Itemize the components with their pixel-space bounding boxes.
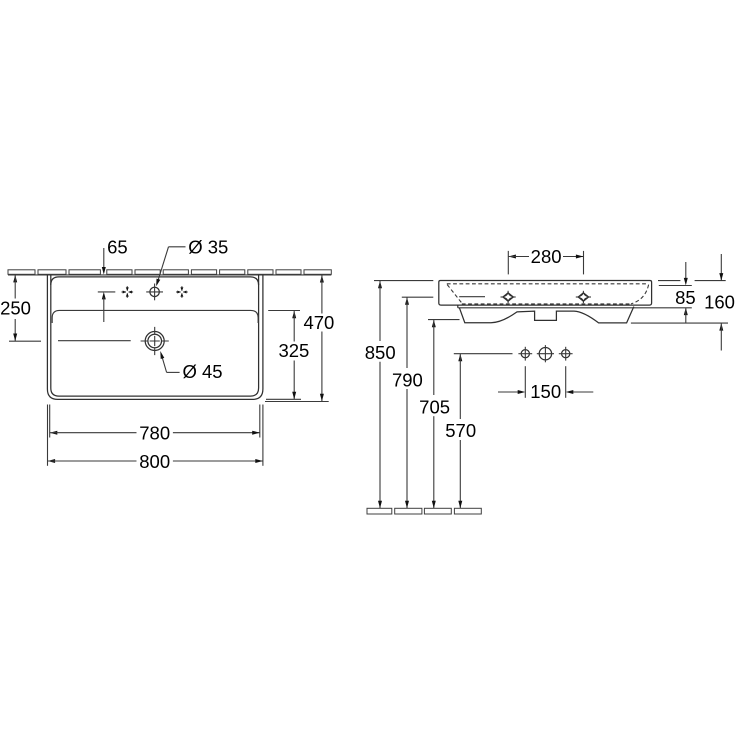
basin outer outline (plan): [47, 275, 263, 400]
extension line 325 bottom: [266, 398, 301, 400]
label leader Ø 45: [160, 351, 222, 382]
dimension 570: [445, 354, 512, 509]
fixing hole left (elevation): [501, 291, 516, 303]
dimension 160: [704, 254, 735, 351]
dimension 85: [675, 262, 696, 323]
svg-text:Ø 35: Ø 35: [188, 237, 228, 258]
wall tile row (plan view top): [8, 270, 331, 275]
extension line 800 left: [47, 405, 49, 466]
floor tile row: [367, 508, 481, 514]
svg-text:Ø 45: Ø 45: [182, 361, 222, 382]
extension line 470 bottom: [265, 401, 329, 403]
dimension 790: [392, 297, 433, 508]
svg-text:280: 280: [531, 246, 562, 267]
dimension 65: [98, 237, 128, 322]
faucet hole Ø35 (plan): [146, 284, 163, 301]
svg-text:250: 250: [0, 297, 31, 318]
drain centreline: [58, 340, 131, 342]
apron top line / 85 bottom reference: [458, 307, 692, 309]
extension line 780 left: [49, 405, 51, 438]
basin inner rim line (plan): [51, 275, 259, 396]
drain hole Ø45 (plan): [141, 327, 169, 355]
dimension 780: [50, 423, 260, 444]
dimension 150: [498, 366, 593, 402]
apron and feet outline: [459, 307, 633, 323]
extension line 800 right: [262, 405, 264, 466]
svg-text:705: 705: [419, 397, 450, 418]
overflow line (elevation): [459, 296, 485, 298]
svg-text:850: 850: [365, 342, 396, 363]
bowl inner edge (plan): [52, 310, 258, 323]
right alternative tap hole mark: [176, 286, 188, 298]
extension line 780 right: [259, 405, 261, 438]
svg-text:150: 150: [530, 381, 561, 402]
dimension 250: [0, 275, 41, 341]
dimension 280: [508, 246, 583, 274]
basin body (elevation): [439, 281, 652, 306]
wall face line: [8, 274, 331, 276]
svg-text:160: 160: [704, 291, 735, 312]
dimension 850: [365, 281, 396, 509]
left alternative tap hole mark: [122, 286, 134, 298]
hidden bowl contour (dashed): [447, 284, 649, 304]
top edge reference line left: [374, 280, 433, 282]
svg-text:85: 85: [675, 287, 696, 308]
160 bottom reference line: [631, 322, 728, 324]
dimension 470: [303, 275, 334, 401]
svg-text:570: 570: [445, 420, 476, 441]
svg-text:325: 325: [278, 340, 309, 361]
top edge reference line right segments: [658, 280, 680, 282]
rim step (elevation): [457, 305, 459, 308]
svg-text:470: 470: [303, 312, 334, 333]
label leader Ø 35: [156, 237, 228, 287]
dimension 705: [419, 320, 459, 509]
dimension 325: [268, 311, 309, 400]
svg-text:780: 780: [139, 423, 170, 444]
85 top reference line: [659, 285, 692, 287]
dimension 800: [48, 451, 263, 472]
svg-text:800: 800: [139, 451, 170, 472]
svg-text:65: 65: [107, 237, 128, 258]
fixing hole right (elevation): [576, 291, 591, 303]
svg-text:790: 790: [392, 369, 423, 390]
tap hole marks at 570 height: [518, 345, 572, 362]
